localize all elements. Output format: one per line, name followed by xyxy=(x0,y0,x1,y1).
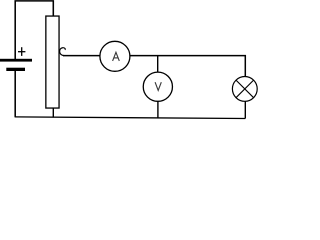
wire lamp bottom lead xyxy=(244,101,246,119)
wire bottom rail (slightly sloped as in original) xyxy=(15,117,246,119)
lamp L1 cross diagonal 1 xyxy=(236,80,254,98)
battery BT1 positive plate (long) xyxy=(0,59,32,62)
resistor R1 (rheostat body rectangle) xyxy=(46,16,59,108)
ammeter A1 circle xyxy=(100,41,130,71)
ammeter A1 label A xyxy=(113,52,120,61)
wire rheostat bottom lead to bottom rail xyxy=(52,108,54,117)
rheostat wiper hook contact xyxy=(60,48,66,56)
wire middle rail from wiper through ammeter to right side, down to lamp xyxy=(63,56,245,77)
wire voltmeter bottom lead xyxy=(157,101,159,119)
lamp L1 cross diagonal 2 xyxy=(236,80,254,98)
wire voltmeter top lead xyxy=(157,56,159,74)
battery polarity label + xyxy=(18,47,25,56)
battery BT1 negative plate (short) xyxy=(6,68,25,71)
wire top loop: battery positive up, across, down to rheostat top xyxy=(15,1,53,59)
lamp L1 circle xyxy=(232,77,257,102)
wire battery negative down to bottom rail xyxy=(14,71,16,117)
voltmeter V1 label V xyxy=(155,82,161,90)
voltmeter V1 circle xyxy=(143,72,172,101)
